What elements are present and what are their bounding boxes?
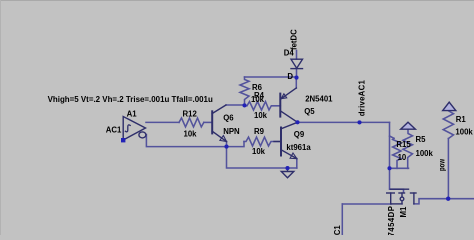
svg-text:100k: 100k	[455, 128, 473, 137]
svg-text:R5: R5	[416, 135, 427, 144]
svg-text:Q6: Q6	[223, 114, 234, 123]
svg-text:10k: 10k	[252, 147, 266, 156]
svg-text:R15: R15	[396, 140, 411, 149]
svg-text:Q9: Q9	[294, 130, 305, 139]
svg-text:D: D	[287, 72, 293, 81]
svg-text:kt961a: kt961a	[286, 143, 311, 152]
svg-text:10k: 10k	[254, 111, 268, 120]
svg-text:10k: 10k	[251, 95, 265, 104]
svg-text:Q5: Q5	[304, 107, 315, 116]
svg-text:R12: R12	[183, 110, 198, 119]
svg-text:R1: R1	[456, 115, 467, 124]
svg-text:fetDC: fetDC	[290, 29, 299, 50]
svg-text:M1: M1	[399, 206, 408, 217]
svg-text:10k: 10k	[184, 129, 198, 138]
svg-text:AC1: AC1	[106, 126, 122, 135]
svg-text:Vhigh=5 Vt=.2 Vh=.2 Trise=.001: Vhigh=5 Vt=.2 Vh=.2 Trise=.001u Tfall=.0…	[48, 95, 213, 104]
svg-text:pow: pow	[437, 158, 446, 171]
svg-text:2N5401: 2N5401	[305, 94, 333, 103]
svg-text:driveAC1: driveAC1	[357, 80, 366, 117]
svg-text:7454DP: 7454DP	[387, 206, 396, 235]
svg-text:NPN: NPN	[223, 127, 240, 136]
svg-text:R9: R9	[254, 127, 265, 136]
svg-text:10: 10	[398, 153, 407, 162]
svg-text:A1: A1	[127, 109, 138, 118]
svg-text:100k: 100k	[416, 149, 434, 158]
svg-text:C1: C1	[333, 225, 342, 235]
